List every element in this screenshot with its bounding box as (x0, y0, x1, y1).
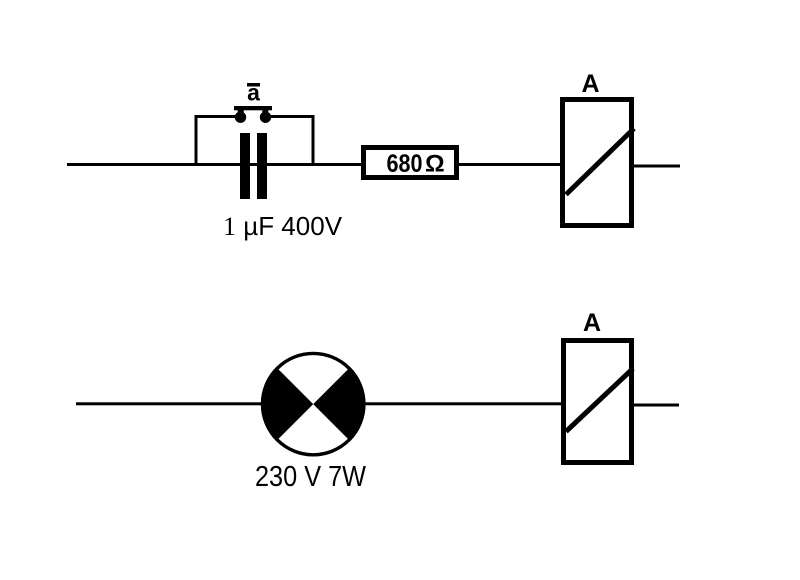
relay coil A (bottom) diagonal (566, 369, 633, 432)
svg-text:A: A (581, 70, 599, 98)
wire parallel-branch left vertical (195, 115, 198, 165)
contact a-bar bridge stub left (238, 110, 244, 113)
wire main left (top circuit) (67, 163, 361, 166)
contact a-bar bridge stub right (262, 110, 268, 113)
svg-text:a: a (247, 80, 260, 106)
svg-text:Ω: Ω (425, 151, 445, 178)
wire main left (bottom circuit) (76, 402, 561, 405)
capacitor C1 plate right (257, 133, 267, 199)
wire parallel-branch right vertical (312, 115, 315, 165)
capacitor C1 plate left (240, 133, 250, 199)
svg-text:1 µF 400V: 1 µF 400V (223, 211, 343, 241)
resistor R1 box 680 ohm (364, 148, 457, 178)
wire resistor to relay coil A (top) (459, 163, 560, 166)
lamp E1 left filled sector (261, 367, 313, 441)
contact a-bar bridge bar (234, 106, 272, 110)
label a-bar overline (247, 83, 260, 87)
relay coil A (top) box (563, 100, 632, 226)
lamp E1 body circle (263, 353, 364, 454)
relay coil A (bottom) box (564, 341, 632, 463)
wire right end (bottom circuit) (634, 404, 679, 407)
svg-text:680: 680 (387, 150, 423, 178)
contact a-bar fixed contact dot right (260, 112, 271, 123)
svg-text:230 V 7W: 230 V 7W (255, 461, 366, 493)
wire parallel-branch top right segment (266, 115, 315, 118)
svg-text:A: A (583, 309, 601, 337)
contact a-bar fixed contact dot left (235, 112, 246, 123)
wire parallel-branch top left segment (195, 115, 241, 118)
lamp E1 right filled sector (313, 367, 365, 441)
relay coil A (top) diagonal (566, 129, 634, 195)
wire right end (top circuit) (634, 165, 680, 168)
